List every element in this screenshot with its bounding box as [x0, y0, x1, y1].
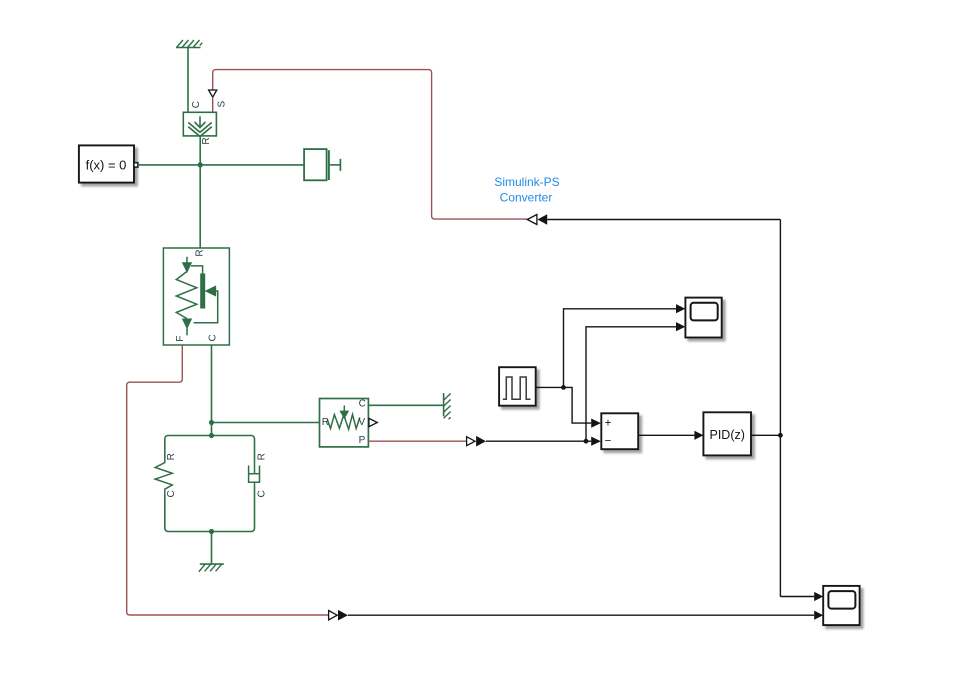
wire: node B to node C: [211, 423, 213, 436]
port arrow S (open triangle into force source): [209, 90, 217, 97]
node F: [561, 385, 566, 390]
force source U1 (Ideal Force Source): [183, 112, 216, 136]
svg-text:Converter: Converter: [500, 191, 553, 205]
wire: node F up to scope input 1: [564, 309, 677, 388]
damper D1 (right branch piston): [249, 461, 260, 486]
wire: top ground to force source C port: [187, 48, 189, 113]
svg-text:R: R: [195, 249, 206, 256]
wire: pulse generator output to node F: [536, 386, 564, 388]
Simulink-PS badge (open triangle pointing left): [527, 215, 537, 225]
svg-text:R: R: [322, 417, 329, 428]
svg-text:R: R: [166, 453, 177, 460]
svg-text:−: −: [605, 435, 612, 447]
solver block f(x)=0: [79, 145, 134, 182]
node D (bottom of loop): [209, 529, 214, 534]
wire: P signal to sum minus input: [486, 440, 591, 442]
wire: PID output to node G: [751, 434, 780, 436]
spring K1 (left branch zigzag): [155, 458, 172, 494]
svg-text:C: C: [207, 334, 218, 341]
wire: feedback vertical line: [779, 220, 781, 597]
svg-text:+: +: [605, 417, 612, 429]
wire: force signal to scope2 input 2: [348, 614, 814, 616]
ground (mechanical reference, top): [176, 40, 202, 48]
svg-text:C: C: [359, 399, 366, 410]
arrowhead into scope2 input 1: [814, 592, 823, 601]
svg-text:C: C: [191, 101, 202, 108]
PS-Simulink badge on friction force line (open triangle): [329, 611, 338, 620]
node B: [209, 420, 214, 425]
wire: node B to motion sensor R port: [212, 422, 320, 424]
wire: sensor P physical signal (red): [368, 440, 466, 442]
pulse generator P1: [499, 367, 536, 406]
PS-Simulink badge (open triangle) on P line: [467, 437, 475, 446]
svg-text:R: R: [257, 453, 268, 460]
svg-text:f(x) = 0: f(x) = 0: [86, 158, 127, 173]
wire: physical signal from S port (red, up and over to converter): [213, 70, 527, 220]
svg-text:V: V: [358, 417, 365, 428]
arrowhead into sum plus: [591, 419, 601, 428]
node E (junction on minus line): [584, 439, 589, 444]
motion sensor U2 (ideal translational motion sensor): [320, 399, 369, 447]
friction block B1 (translational friction): [163, 248, 229, 345]
wire: friction C down to node B: [211, 345, 213, 423]
wire: feedback bottom run to scope2 input 1: [780, 596, 814, 598]
wire: sum output to PID: [638, 434, 694, 436]
svg-text:C: C: [166, 490, 177, 497]
wire: feedback top run to converter badge: [547, 219, 780, 221]
svg-text:F: F: [175, 336, 186, 342]
arrowhead into sum minus: [591, 437, 601, 446]
node C (top of spring-damper loop): [209, 433, 214, 438]
signal arrowhead after badge: [476, 436, 486, 447]
signal arrowhead after bottom badge: [338, 610, 348, 621]
arrowhead into scope input 2: [676, 322, 685, 331]
solver port square: [134, 163, 138, 167]
node G (junction on feedback line): [778, 433, 783, 438]
signal arrowhead into converter (filled, pointing left): [537, 214, 547, 225]
wire: solver to node A to mass: [138, 164, 304, 166]
PID controller block: [703, 412, 751, 455]
arrowhead into scope input 1: [676, 304, 685, 313]
wire: force source R down to node A: [199, 136, 201, 165]
arrowhead into PID: [694, 431, 703, 440]
wire: sensor C to wall: [368, 404, 443, 406]
port arrow V (unconnected output, open triangle): [369, 418, 377, 426]
wire loop: spring-damper parallel connection: [165, 436, 255, 532]
wire: friction F physical signal (red) down-left-down to bottom badge: [127, 345, 329, 615]
arrowhead into scope2 input 2: [814, 611, 823, 620]
svg-text:C: C: [257, 490, 268, 497]
wire: S arrow to block: [212, 97, 214, 112]
mass block M1: [304, 149, 340, 180]
svg-text:PID(z): PID(z): [709, 428, 744, 442]
svg-text:P: P: [359, 435, 366, 446]
svg-text:S: S: [217, 101, 228, 108]
scope S1: [685, 298, 721, 338]
scope S2: [823, 586, 859, 625]
wire: node A down to friction R port: [199, 165, 201, 248]
node A (junction dot): [198, 162, 203, 167]
wire: node F to sum plus input: [564, 387, 592, 423]
sum block A1: [601, 413, 638, 449]
ground (mechanical reference, bottom): [199, 564, 224, 572]
wall (mechanical reference, right of sensor): [444, 393, 451, 419]
svg-text:R: R: [201, 137, 212, 144]
wire: loop bottom to ground: [211, 532, 213, 565]
wire: node E up to scope input 2: [586, 327, 676, 441]
svg-text:Simulink-PS: Simulink-PS: [494, 175, 559, 189]
